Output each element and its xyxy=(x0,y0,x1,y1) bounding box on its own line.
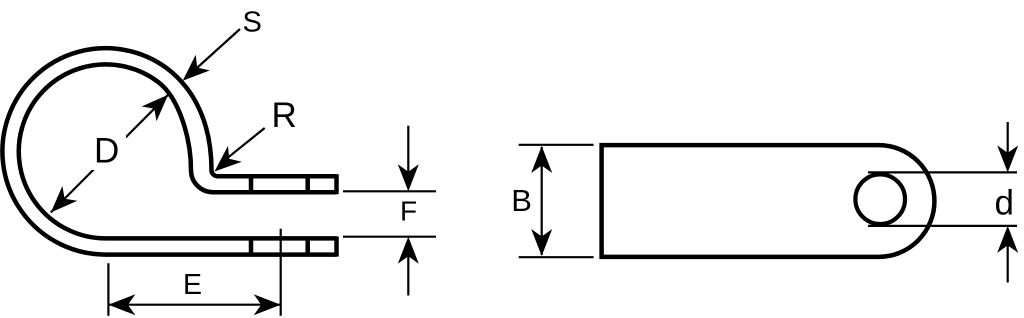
E dimension line xyxy=(108,304,280,306)
dimension line D (diagonal, double arrow) xyxy=(51,95,168,213)
d extension line upper xyxy=(868,171,1017,173)
svg-text:D: D xyxy=(94,132,119,171)
svg-text:B: B xyxy=(511,183,532,218)
mounting hole (top view) xyxy=(855,174,905,224)
F extension line lower xyxy=(343,236,436,238)
upper tab hole edge lines xyxy=(249,175,254,194)
d arrow lower xyxy=(1007,230,1009,283)
F extension line upper xyxy=(343,190,436,192)
clip outline, outer boundary (side view) xyxy=(2,48,336,254)
svg-text:E: E xyxy=(183,269,202,301)
leader arrow R xyxy=(220,128,265,164)
clip outline, inner boundary (side view) xyxy=(19,64,337,238)
F arrow upper xyxy=(407,126,409,187)
B dimension line (double arrow) xyxy=(541,147,543,255)
F arrow lower xyxy=(407,241,409,296)
lower tab right end xyxy=(334,236,339,256)
E extension line left xyxy=(107,263,109,316)
svg-text:F: F xyxy=(400,195,417,226)
svg-text:S: S xyxy=(243,7,262,39)
leader arrow S xyxy=(188,29,241,77)
upper tab right end xyxy=(334,174,339,194)
d arrow upper xyxy=(1007,122,1009,168)
clip outline (top view, stadium shape) xyxy=(602,145,935,257)
svg-text:d: d xyxy=(995,184,1014,223)
B extension line lower xyxy=(519,256,594,258)
lower tab hole edge lines xyxy=(249,237,254,255)
E extension line right xyxy=(280,229,282,316)
B extension line upper xyxy=(519,144,594,146)
d extension line lower xyxy=(868,225,1017,227)
svg-text:R: R xyxy=(272,96,297,135)
